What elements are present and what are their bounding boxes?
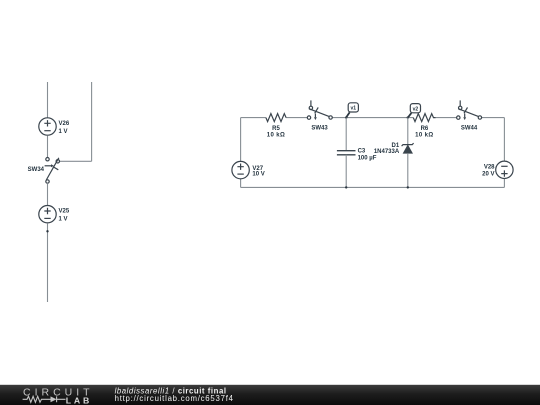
wire SW34 to V25: [47, 183, 49, 205]
svg-text:V25: V25: [59, 209, 70, 215]
svg-text:1 V: 1 V: [59, 129, 68, 135]
zener diode D1: [402, 143, 414, 146]
svg-text:R6: R6: [421, 126, 429, 132]
svg-text:1N4733A: 1N4733A: [374, 149, 400, 155]
wire below V25: [47, 223, 49, 302]
logo schematic squiggle: [23, 396, 51, 402]
wire R6 to SW44: [436, 117, 457, 119]
junction dot below V25: [46, 230, 48, 232]
svg-text:D1: D1: [392, 143, 400, 149]
svg-text:20 V: 20 V: [482, 171, 494, 177]
svg-text:V28: V28: [484, 165, 495, 171]
wire right vertical through V28: [503, 118, 505, 188]
svg-text:10 V: 10 V: [252, 172, 264, 178]
svg-text:http://circuitlab.com/c6537f4: http://circuitlab.com/c6537f4: [115, 394, 234, 403]
svg-text:1 V: 1 V: [59, 217, 68, 223]
switch SW43: [307, 100, 332, 119]
svg-text:v2: v2: [413, 106, 419, 112]
wire left vertical through V27: [240, 118, 242, 188]
wire node v1 down to C3: [345, 118, 347, 151]
wire R5 to SW43: [286, 117, 307, 119]
resistor R5: [266, 114, 286, 122]
voltage source V25: [39, 206, 56, 223]
voltage source V28: [496, 161, 513, 178]
svg-text:10 kΩ: 10 kΩ: [267, 133, 286, 139]
wire SW34 throw to right branch: [60, 160, 92, 162]
node v2: [407, 116, 409, 118]
svg-text:C3: C3: [358, 149, 366, 155]
switch SW34: [45, 158, 60, 184]
switch SW44: [457, 100, 482, 119]
junction dot C3 bottom: [345, 186, 347, 188]
svg-text:V26: V26: [59, 121, 70, 127]
capacitor C3: [337, 151, 356, 155]
node v1: [345, 116, 347, 118]
voltage source V27: [232, 161, 249, 178]
wire top-left corner to R5: [241, 117, 266, 119]
wire SW44 to top-right corner: [482, 117, 505, 119]
svg-text:SW43: SW43: [311, 125, 328, 131]
svg-text:10 kΩ: 10 kΩ: [415, 133, 434, 139]
voltage source V26: [39, 118, 56, 135]
svg-text:v1: v1: [351, 106, 357, 112]
svg-text:LAB: LAB: [66, 396, 92, 405]
wire node v2 down to D1: [407, 118, 409, 145]
svg-text:SW44: SW44: [461, 125, 478, 131]
wire bottom rail: [241, 186, 505, 188]
wire top-left vertical into V26: [47, 82, 49, 118]
svg-text:R5: R5: [272, 126, 280, 132]
wire V26 to SW34: [47, 136, 49, 158]
junction dot D1 bottom: [407, 186, 409, 188]
svg-text:SW34: SW34: [28, 167, 45, 173]
resistor R6: [413, 114, 435, 122]
wire D1 to bottom rail: [407, 153, 409, 187]
wire C3 to bottom rail: [345, 155, 347, 188]
wire SW43 to node v2 (through node v1): [332, 117, 413, 119]
wire right vertical branch x=92: [91, 82, 93, 161]
svg-text:100 µF: 100 µF: [358, 155, 377, 161]
